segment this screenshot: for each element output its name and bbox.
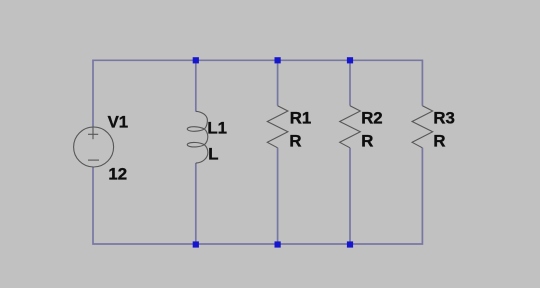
- wire R2 bottom lead: [349, 148, 351, 244]
- wire bottom bus: [93, 148, 422, 244]
- svg-text:R: R: [433, 132, 445, 151]
- node bottom R1: [275, 241, 281, 247]
- wire R2 top lead: [349, 60, 351, 105]
- node bottom L1: [193, 241, 199, 247]
- resistor R3: [412, 106, 433, 148]
- svg-text:R2: R2: [361, 109, 382, 128]
- svg-text:L: L: [208, 145, 218, 164]
- svg-text:12: 12: [108, 165, 127, 184]
- voltage source V1: [74, 127, 114, 167]
- resistor R1: [267, 106, 288, 148]
- svg-text:R: R: [361, 132, 373, 151]
- node top R2: [347, 57, 353, 63]
- resistor R2: [340, 106, 361, 148]
- wire R1 top lead: [277, 60, 279, 105]
- svg-text:R3: R3: [433, 109, 454, 128]
- wire top bus: [93, 60, 422, 127]
- node top R1: [275, 57, 281, 63]
- wire R1 bottom lead: [277, 148, 279, 244]
- svg-text:L1: L1: [207, 118, 227, 137]
- node top L1: [193, 57, 199, 63]
- svg-text:R: R: [289, 132, 301, 151]
- svg-text:V1: V1: [108, 112, 129, 131]
- inductor L1: [187, 111, 208, 163]
- wire L1 bottom lead: [195, 163, 197, 244]
- svg-text:R1: R1: [290, 108, 311, 127]
- wire L1 top lead: [195, 60, 197, 111]
- node bottom R2: [347, 241, 353, 247]
